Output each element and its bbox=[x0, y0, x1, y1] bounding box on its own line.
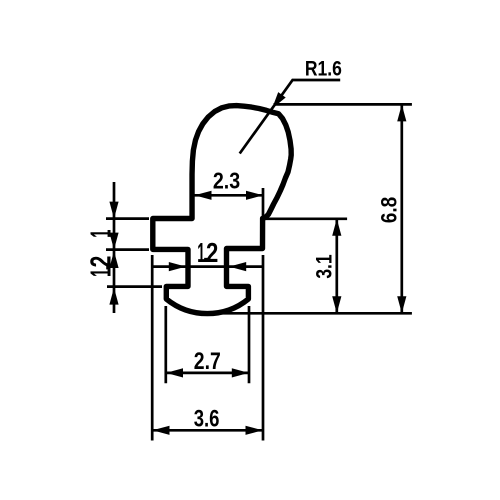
extension line flange top (left) bbox=[106, 217, 149, 220]
extension line 3.6 left bbox=[151, 255, 154, 441]
svg-text:2.7: 2.7 bbox=[194, 349, 221, 375]
extension line 2.3 right bbox=[262, 188, 265, 218]
dimension line 2.7 (base width) bbox=[166, 372, 249, 375]
arrowhead 2.7 left bbox=[166, 368, 183, 377]
dimension line 3.1 bbox=[335, 219, 338, 313]
dimension line 1.2 (web width) bbox=[153, 265, 262, 268]
arrowhead R1.6 leader bbox=[272, 92, 286, 109]
extension line 2.7 left bbox=[164, 306, 167, 383]
arrowhead 1.2 web right bbox=[229, 262, 246, 271]
svg-text:6.8: 6.8 bbox=[376, 197, 401, 224]
svg-text:2.3: 2.3 bbox=[213, 167, 240, 193]
extension line top (bulb apex, dim 6.8) bbox=[274, 103, 412, 106]
svg-text:1: 1 bbox=[85, 230, 117, 238]
extension line flange bottom (left) bbox=[106, 248, 149, 251]
arrowhead dim 1 top bbox=[109, 202, 118, 219]
profile outline (gasket cross-section: bulb, neck, T-flange, web, base) bbox=[153, 106, 291, 314]
arrowhead dim 1.2 upper bbox=[109, 233, 118, 250]
svg-text:R1.6: R1.6 bbox=[305, 56, 342, 80]
dimension line 6.8 bbox=[400, 104, 403, 313]
arrowhead 3.1 top bbox=[332, 219, 341, 236]
extension line right shoulder (dim 3.1 top) bbox=[265, 217, 347, 220]
extension line bottom (base underside, dims 6.8 and 3.1) bbox=[215, 312, 412, 315]
arrowhead 2.3 left bbox=[195, 191, 212, 200]
arrowhead 2.3 right bbox=[246, 191, 263, 200]
svg-text:3.6: 3.6 bbox=[194, 406, 220, 432]
dimension line 3.6 (overall width) bbox=[153, 429, 263, 432]
arrowhead dim 1.2 lower bbox=[109, 288, 118, 305]
svg-text:3.1: 3.1 bbox=[312, 254, 337, 278]
arrowhead dim 1 bottom bbox=[109, 251, 118, 268]
arrowhead 1.2 web left bbox=[169, 262, 186, 271]
leader line R1.6 bbox=[240, 80, 341, 154]
extension line 3.6 right bbox=[262, 255, 265, 441]
dimension line 2.3 (neck width) bbox=[195, 194, 264, 197]
extension line base top (left) bbox=[107, 285, 162, 288]
label 1.2 (notch height) bbox=[85, 256, 117, 277]
arrowhead 3.6 left bbox=[153, 426, 170, 435]
arrowhead 3.6 right bbox=[246, 426, 263, 435]
arrowhead 6.8 top bbox=[397, 104, 406, 121]
svg-text:2: 2 bbox=[85, 256, 117, 268]
svg-text:2: 2 bbox=[206, 237, 218, 268]
extension line 2.7 right bbox=[248, 306, 251, 383]
arrowhead 6.8 bottom bbox=[397, 296, 406, 313]
dimension line left stack (dims 1 and 1.2) bbox=[113, 182, 116, 313]
arrowhead 3.1 bottom bbox=[332, 296, 341, 313]
arrowhead 2.7 right bbox=[232, 368, 249, 377]
